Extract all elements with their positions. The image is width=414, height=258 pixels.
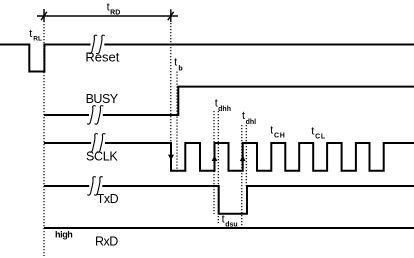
signal BUSY waveform bbox=[44, 87, 414, 115]
svg-text:TxD: TxD bbox=[97, 192, 119, 206]
signal RxD waveform bbox=[44, 227, 414, 229]
dotted reference line t_dhl left / SCLK rise 3 (x=241.8) bbox=[241, 125, 243, 226]
dotted reference line t_dhl right / TxD rise (x=246.3) bbox=[245, 125, 247, 186]
svg-text:SCLK: SCLK bbox=[86, 150, 118, 164]
dimension line t_RD with oblique slash terminators bbox=[37, 9, 178, 22]
dotted reference line at Reset rise (x=44) bbox=[43, 9, 45, 256]
break squiggle on SCLK bbox=[89, 134, 105, 152]
dotted reference line at BUSY rise (x=177) bbox=[176, 72, 178, 173]
signal Reset waveform bbox=[0, 45, 414, 72]
svg-text:RxD: RxD bbox=[95, 235, 118, 249]
signal TxD waveform bbox=[44, 186, 414, 214]
arrowhead up on SCLK rise 2 bbox=[212, 156, 218, 161]
dotted reference line t_dhh left (x=214) bbox=[213, 111, 215, 214]
svg-text:BUSY: BUSY bbox=[86, 92, 119, 106]
dotted reference line at t_RD end (x=171) bbox=[170, 23, 172, 143]
break squiggle on TxD bbox=[87, 177, 103, 195]
break squiggle on BUSY bbox=[87, 106, 103, 124]
arrowhead down on SCLK fall 1 bbox=[168, 155, 174, 161]
break squiggle on Reset bbox=[89, 35, 105, 53]
arrowhead up on SCLK rise 3 bbox=[240, 156, 246, 161]
svg-text:high: high bbox=[55, 229, 72, 239]
dotted reference line t_dhh right / TxD fall (x=218.3) bbox=[217, 111, 219, 223]
signal SCLK waveform bbox=[44, 143, 414, 171]
svg-text:Reset: Reset bbox=[85, 50, 119, 65]
